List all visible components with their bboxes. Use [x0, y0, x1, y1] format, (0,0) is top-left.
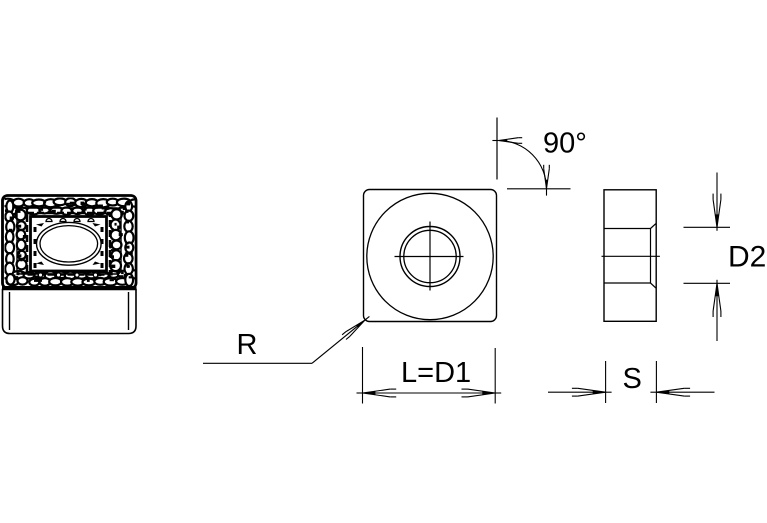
D2 top tick	[684, 226, 731, 228]
90deg arc arrow left	[492, 138, 522, 144]
90deg arc	[498, 141, 546, 189]
D2 top arrow line	[713, 173, 721, 231]
insert photo: corner marks	[36, 223, 101, 265]
side view hole top line	[604, 223, 656, 228]
svg-text:L=D1: L=D1	[401, 357, 471, 389]
crosshair horizontal	[395, 256, 464, 258]
insert photo: lower bead row	[38, 273, 97, 277]
front view hole outer circle	[400, 227, 460, 287]
svg-text:S: S	[623, 363, 642, 395]
insert photo: platform dark surround	[27, 213, 110, 275]
side view centreline	[602, 255, 660, 257]
R leader diagonal	[312, 320, 365, 363]
D2 bottom tick	[684, 282, 731, 284]
S right extension line	[655, 361, 657, 403]
insert photo: top face outline	[3, 196, 137, 289]
insert photo: intermediate ring	[17, 208, 121, 274]
crosshair vertical	[429, 222, 431, 291]
front view inscribed circle	[367, 193, 493, 319]
S right arrow	[650, 388, 714, 396]
insert photo: centre platform	[31, 217, 107, 272]
90deg horizontal extension line	[507, 188, 571, 190]
L=D1 dimension line	[363, 392, 496, 394]
side view outline	[604, 190, 656, 321]
L=D1 left extension line	[362, 347, 364, 404]
svg-text:90°: 90°	[543, 128, 587, 160]
R leader tail	[203, 362, 312, 364]
front view hole inner circle	[404, 230, 456, 282]
S left extension line	[605, 361, 607, 403]
L=D1 arrow left	[357, 389, 397, 397]
insert photo: bottom edge band	[2, 286, 137, 290]
front view square outline	[364, 190, 497, 322]
90deg vertical extension line	[496, 118, 498, 180]
insert photo: side face	[3, 290, 137, 334]
S left arrow	[548, 388, 612, 396]
L=D1 right extension line	[494, 348, 496, 404]
side view hole inner vertical	[650, 229, 652, 284]
svg-text:D2: D2	[728, 241, 766, 274]
side view hole bottom line	[604, 283, 656, 288]
90deg arc arrow down	[544, 165, 550, 196]
R leader arrow	[342, 316, 369, 339]
L=D1 arrow right	[462, 389, 502, 397]
svg-text:R: R	[237, 329, 258, 361]
insert photo: hole ellipse	[37, 222, 102, 265]
D2 bottom arrow line	[713, 280, 721, 341]
insert photo: top face border restroke	[3, 196, 137, 289]
